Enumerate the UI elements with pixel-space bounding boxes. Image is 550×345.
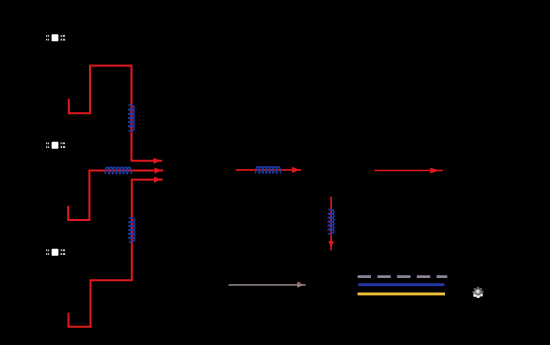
wire gray transfer arrow: [229, 284, 306, 286]
arrowhead gray transfer arrow: [297, 282, 304, 288]
arrowhead output-beam: [430, 168, 440, 173]
label pulse-2: [46, 143, 47, 145]
arrowhead pulse-2 output: [155, 168, 162, 174]
node ground-level orange line: [358, 292, 445, 295]
coil L5 photon squiggle on emission-down: [328, 209, 334, 233]
node excited-level blue line: [358, 283, 444, 286]
wire emission-down: [330, 197, 332, 251]
coil L4 photon squiggle on combined-beam: [256, 167, 281, 173]
label pulse-3: [46, 250, 47, 252]
atom icon: [473, 287, 484, 298]
coil L2 photon squiggle on pulse-2: [105, 167, 131, 173]
red speck on gray arrowhead: [298, 282, 300, 284]
wire pulse-2 middle waveform: [68, 171, 163, 221]
coil L3 photon squiggle on pulse-3: [129, 218, 135, 242]
arrowhead pulse-3 output: [154, 177, 161, 183]
label pulse-1: [46, 35, 47, 37]
node virtual-level dashed line: [358, 275, 448, 278]
wire output-beam long arrow: [374, 170, 443, 172]
coil L1 photon squiggle on pulse-1: [129, 105, 135, 131]
wire pulse-3 bottom staircase waveform: [69, 180, 163, 327]
arrowhead pulse-1 output: [154, 158, 161, 164]
wire combined-beam: [236, 169, 301, 171]
arrowhead combined-beam: [292, 167, 299, 173]
arrowhead emission-down: [329, 241, 334, 248]
wire pulse-1 top staircase waveform: [69, 66, 162, 161]
